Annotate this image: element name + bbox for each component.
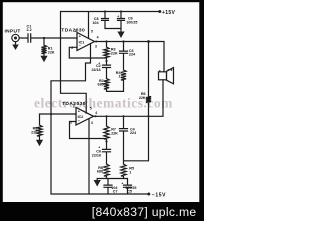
svg-text:224: 224 [130, 131, 137, 135]
svg-text:1: 1 [118, 74, 120, 78]
svg-text:224: 224 [129, 53, 136, 57]
svg-text:22K: 22K [111, 51, 118, 55]
svg-text:680: 680 [98, 83, 104, 87]
svg-text:3: 3 [91, 121, 93, 125]
svg-text:2: 2 [71, 46, 73, 50]
svg-text:3: 3 [95, 45, 97, 49]
svg-text:2: 2 [70, 121, 72, 125]
svg-text:−15V: −15V [152, 193, 166, 199]
svg-text:electroschematics.com: electroschematics.com [34, 96, 173, 111]
svg-text:22K: 22K [111, 131, 118, 135]
svg-text:+: + [117, 15, 119, 19]
svg-text:+: + [121, 182, 123, 186]
svg-text:[840x837] uplc.me: [840x837] uplc.me [92, 205, 197, 219]
svg-text:INPUT: INPUT [5, 28, 21, 34]
svg-text:C7: C7 [113, 190, 118, 194]
svg-text:680: 680 [97, 170, 103, 174]
svg-text:+15V: +15V [162, 10, 176, 16]
svg-text:4: 4 [97, 36, 99, 40]
svg-text:104: 104 [92, 21, 99, 25]
svg-text:C5: C5 [127, 190, 132, 194]
svg-text:22K: 22K [139, 96, 146, 100]
svg-text:100/25: 100/25 [126, 20, 137, 24]
svg-text:220: 220 [31, 130, 37, 134]
svg-text:1: 1 [73, 105, 75, 109]
svg-text:1: 1 [129, 170, 131, 174]
svg-text:22/16: 22/16 [92, 153, 101, 157]
svg-text:TDA2030: TDA2030 [61, 27, 85, 33]
svg-text:4: 4 [95, 111, 97, 115]
svg-text:2.2: 2.2 [27, 28, 32, 32]
svg-text:5: 5 [91, 29, 93, 33]
svg-text:5: 5 [90, 107, 92, 111]
svg-text:22K: 22K [48, 50, 55, 54]
svg-text:22/16: 22/16 [91, 68, 100, 72]
svg-text:1: 1 [75, 29, 77, 33]
